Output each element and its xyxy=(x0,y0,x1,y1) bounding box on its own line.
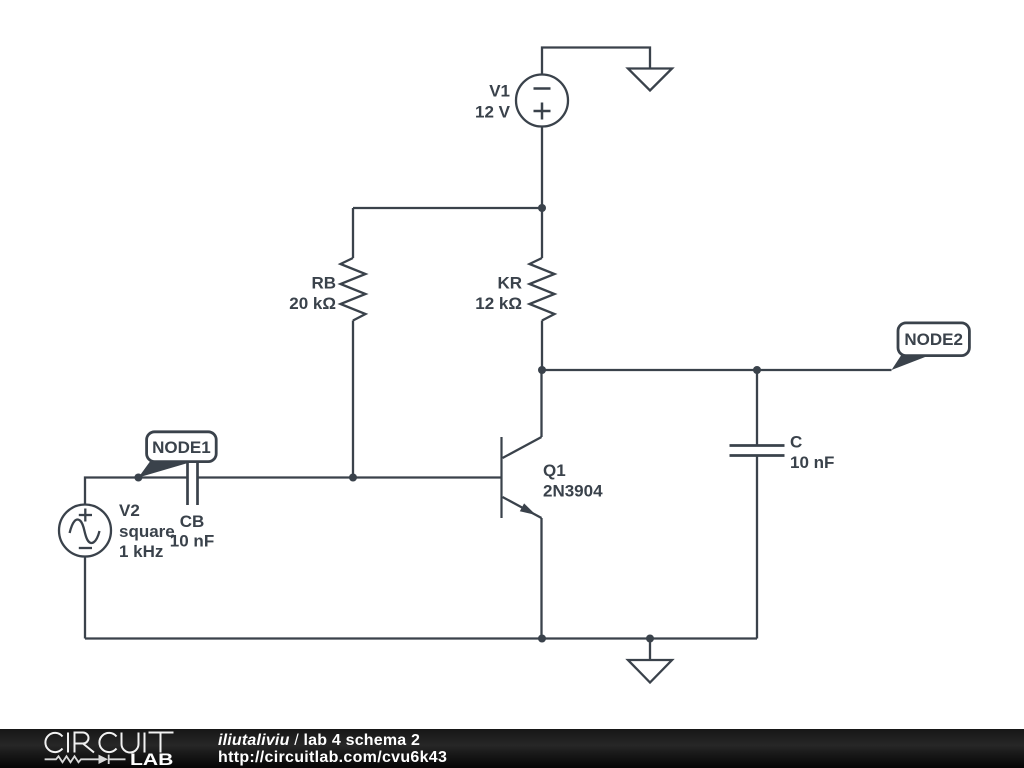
svg-text:RB: RB xyxy=(311,274,336,293)
wire V1 top to ground xyxy=(542,48,650,75)
CircuitLab logo xyxy=(0,729,200,768)
label KR 12 kOhm xyxy=(475,274,522,314)
wire junction to RB xyxy=(353,207,542,209)
wire CB to base xyxy=(198,476,502,478)
LAB xyxy=(130,754,173,767)
svg-text:NODE1: NODE1 xyxy=(152,438,211,457)
wire base (V2 to CB) xyxy=(85,478,188,505)
label CB 10 nF xyxy=(170,512,214,551)
C xyxy=(99,733,116,752)
voltage source V2 xyxy=(59,505,111,557)
capacitor C xyxy=(730,370,785,639)
node junction RB/base xyxy=(349,474,357,482)
svg-text:square: square xyxy=(119,522,175,541)
svg-text:10 nF: 10 nF xyxy=(170,532,214,551)
R xyxy=(75,733,95,753)
label V1 12 V xyxy=(475,82,511,122)
T xyxy=(149,733,174,753)
svg-text:10 nF: 10 nF xyxy=(790,453,834,472)
svg-text:KR: KR xyxy=(497,274,522,293)
node junction ground/bottom xyxy=(646,635,654,643)
node junction top (V1/RB/KR) xyxy=(538,204,546,212)
wire V2 bottom xyxy=(84,557,86,639)
label Q1 2N3904 xyxy=(543,461,603,501)
wire bottom rail xyxy=(85,637,757,639)
svg-text:20 kΩ: 20 kΩ xyxy=(289,294,336,313)
ground (bottom) xyxy=(628,639,672,683)
wire collector to NODE2 xyxy=(542,369,892,371)
svg-text:C: C xyxy=(790,433,802,452)
node junction emitter/bottom xyxy=(538,635,546,643)
label V2 square 1 kHz xyxy=(119,501,175,561)
footer line 1 xyxy=(218,733,420,749)
svg-text:2N3904: 2N3904 xyxy=(543,482,603,501)
resistor KR xyxy=(530,208,555,370)
wire V1 bottom to junction xyxy=(541,127,543,209)
svg-text:12 kΩ: 12 kΩ xyxy=(475,294,522,313)
net flag NODE1 xyxy=(138,432,216,478)
svg-text:1 kHz: 1 kHz xyxy=(119,542,163,561)
label RB 20 kOhm xyxy=(289,274,336,314)
transistor Q1 xyxy=(502,370,542,639)
footer line 2 xyxy=(218,750,447,766)
node junction collector xyxy=(538,366,546,374)
svg-text:CB: CB xyxy=(180,512,205,531)
I xyxy=(67,733,69,753)
svg-text:Q1: Q1 xyxy=(543,461,566,480)
C xyxy=(45,733,62,752)
svg-text:V1: V1 xyxy=(489,82,510,101)
footer bar xyxy=(0,729,1024,768)
svg-text:NODE2: NODE2 xyxy=(904,330,963,349)
capacitor CB xyxy=(188,450,198,505)
node junction NODE1 xyxy=(134,474,142,482)
U xyxy=(122,733,139,753)
label C 10 nF xyxy=(790,433,834,473)
resistor RB xyxy=(341,208,366,478)
svg-text:12 V: 12 V xyxy=(475,103,511,122)
logo resistor + diode xyxy=(45,755,126,764)
net flag NODE2 xyxy=(892,323,970,370)
svg-text:V2: V2 xyxy=(119,501,140,520)
ground (top right) xyxy=(628,69,672,91)
voltage source V1 xyxy=(516,75,568,127)
node junction at capacitor C xyxy=(753,366,761,374)
I xyxy=(144,733,146,753)
